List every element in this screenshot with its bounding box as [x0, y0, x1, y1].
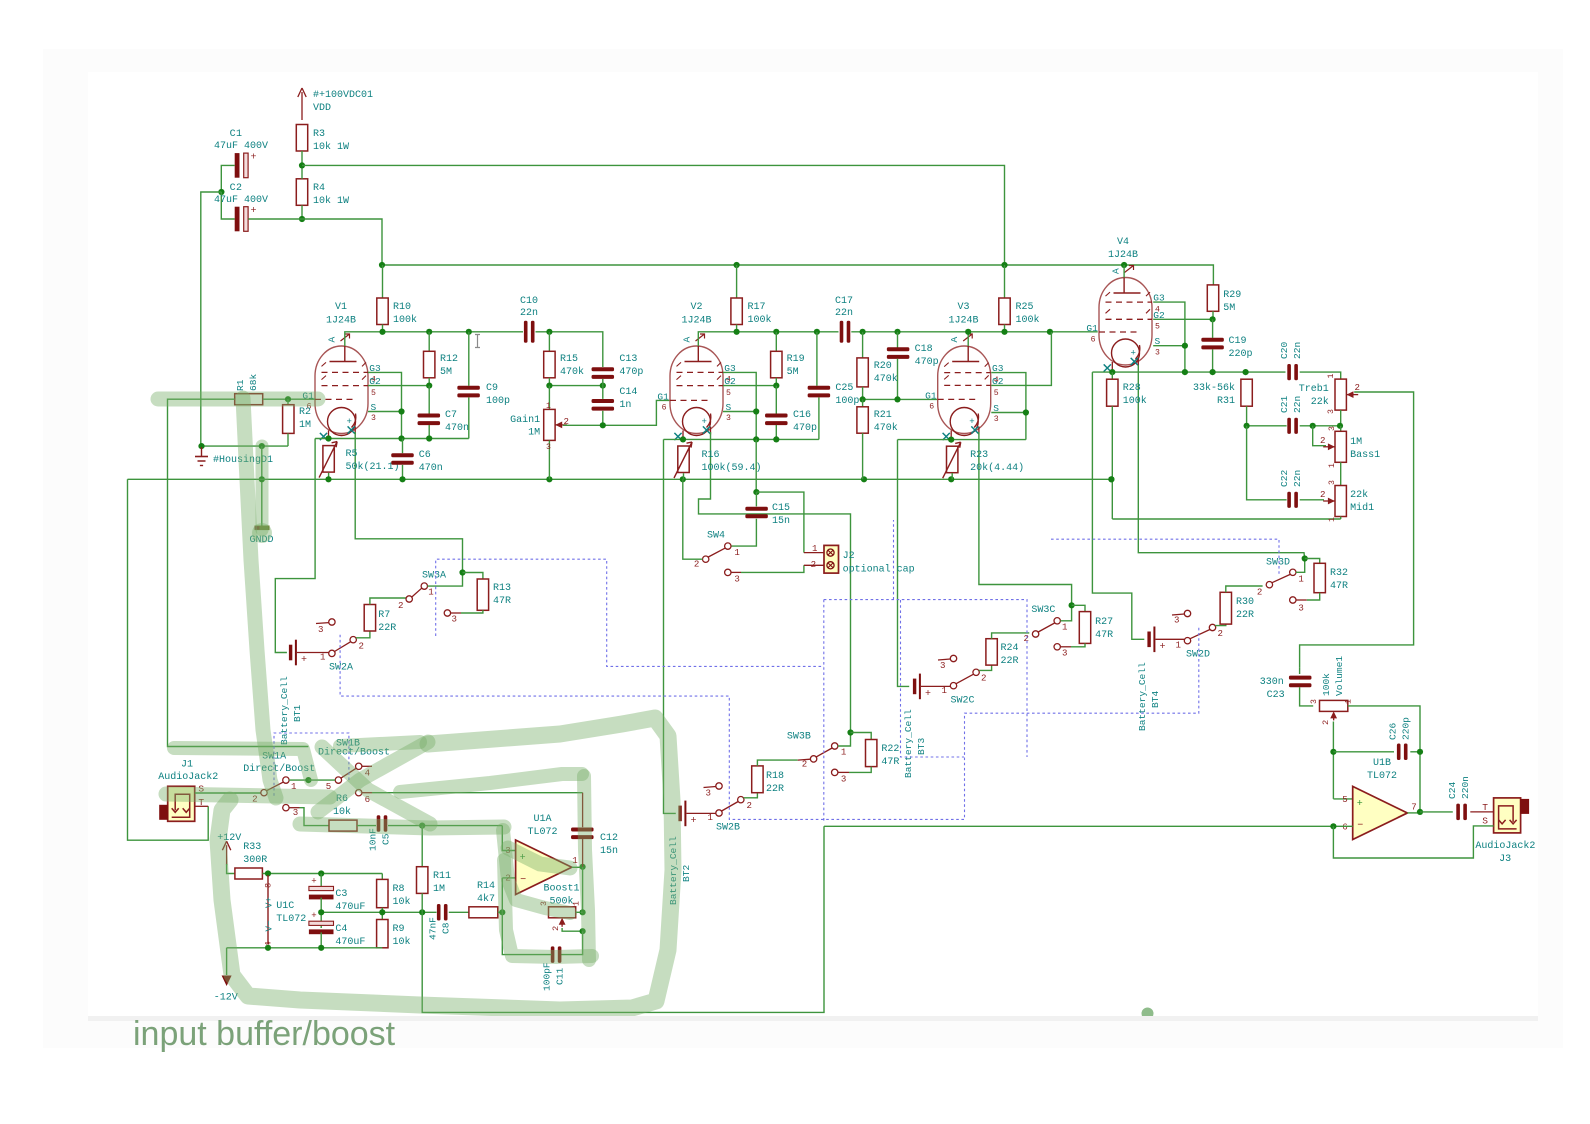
wire J1 sleeve stub [195, 805, 208, 807]
resistor R19 [775, 332, 777, 352]
svg-text:T: T [1482, 802, 1488, 813]
svg-text:8: 8 [264, 883, 274, 888]
node mid C3C4 [318, 909, 324, 915]
node R15 bottom [546, 383, 552, 389]
svg-text:G1: G1 [1086, 323, 1098, 334]
node V2 fil-R16 [680, 436, 686, 442]
wire V1 S row [368, 411, 402, 413]
capacitor C13 [592, 367, 615, 371]
svg-text:1: 1 [1298, 574, 1304, 585]
resistor R18 [752, 766, 763, 793]
resistor R1 [235, 394, 263, 405]
node V4 R31-top [1243, 369, 1249, 375]
svg-text:R27: R27 [1095, 617, 1113, 628]
svg-text:6: 6 [1091, 335, 1096, 344]
svg-text:15n: 15n [772, 516, 790, 527]
svg-text:10k: 10k [393, 936, 411, 948]
capacitor C7 [428, 386, 430, 414]
capacitor C17 [840, 321, 844, 343]
resistor R25 [1004, 265, 1006, 298]
node plate rail V4 anode [1121, 262, 1127, 268]
wire U1B minus input row [824, 825, 1353, 827]
svg-text:3: 3 [1062, 648, 1067, 659]
wire C13-C14 link [602, 379, 604, 399]
wire V2 anode row [698, 332, 838, 346]
svg-text:-12V: -12V [214, 993, 238, 1004]
node anode-R19 [773, 329, 779, 335]
svg-text:BT1: BT1 [292, 705, 303, 722]
svg-text:5: 5 [994, 389, 999, 398]
wire R14 to minus input [498, 911, 503, 913]
node anode V3 [965, 329, 971, 335]
svg-text:3: 3 [1298, 603, 1303, 614]
annotation highlighter big loop [218, 718, 673, 1010]
wire R24 to SW3C [992, 633, 1030, 639]
svg-text:C3: C3 [335, 889, 347, 900]
svg-text:G1: G1 [925, 390, 937, 401]
node bus Gain1 [546, 476, 552, 482]
svg-text:TL072: TL072 [276, 914, 306, 925]
svg-text:5M: 5M [440, 367, 452, 378]
wire V4 G2 row [1153, 318, 1213, 320]
svg-text:330n: 330n [1260, 677, 1284, 688]
wire C22 to Mid1 wiper [1300, 499, 1324, 501]
svg-text:100k: 100k [1321, 673, 1332, 696]
capacitor C14 [592, 399, 615, 403]
svg-text:VDD: VDD [313, 103, 331, 114]
svg-text:V+: V+ [264, 897, 275, 908]
node wiper-C26 [1330, 749, 1336, 755]
svg-text:C17: C17 [835, 296, 853, 307]
svg-text:10k 1W: 10k 1W [313, 195, 349, 207]
svg-text:C15: C15 [772, 503, 790, 514]
svg-text:470uF: 470uF [335, 937, 365, 948]
node R11 top [419, 823, 425, 829]
svg-text:2: 2 [398, 600, 403, 611]
svg-text:6: 6 [662, 404, 667, 413]
wire G1 row V3 [863, 398, 938, 400]
wire C10 out [536, 332, 603, 367]
svg-text:optional cap: optional cap [843, 564, 915, 576]
svg-text:100k(59.4): 100k(59.4) [702, 462, 762, 474]
wire Boost1 wiper tie [562, 928, 583, 931]
node plate rail R25 [1001, 262, 1007, 268]
trimmer R5 [323, 446, 334, 473]
wire R32 bottom to pin3 [1307, 593, 1320, 600]
capacitor C8 [437, 904, 441, 921]
capacitor C4 [309, 929, 334, 934]
svg-text:C13: C13 [619, 354, 637, 365]
svg-text:R22: R22 [881, 744, 899, 755]
node wiper-C14 [600, 422, 606, 428]
svg-text:47uF 400V: 47uF 400V [214, 141, 268, 152]
resistor R6 [329, 820, 357, 831]
svg-text:22n: 22n [1292, 470, 1303, 487]
wire V3 left filament to BT3 [898, 440, 910, 687]
node C1-C2 left junction [218, 189, 224, 195]
svg-text:2: 2 [1218, 628, 1223, 639]
node anode-R17 [734, 329, 740, 335]
resistor R12 [428, 332, 430, 352]
svg-text:100k: 100k [748, 314, 772, 326]
svg-text:2: 2 [981, 673, 986, 684]
svg-text:+: + [311, 875, 316, 886]
wire V+ rail [262, 873, 382, 875]
svg-text:R28: R28 [1123, 383, 1141, 394]
svg-text:22n: 22n [520, 308, 538, 319]
selection box network A lower [340, 625, 1199, 819]
node SW3B-R22 [847, 729, 853, 735]
svg-text:C1: C1 [230, 129, 243, 140]
svg-text:C10: C10 [520, 296, 538, 307]
resistor R30 [1220, 592, 1231, 624]
wire out to C24 [1420, 811, 1453, 813]
svg-text:C22: C22 [1279, 470, 1290, 487]
node Treb3-Bass1 [1337, 423, 1343, 429]
svg-text:1: 1 [734, 547, 740, 558]
svg-text:+: + [1131, 348, 1136, 359]
node SW1 common [305, 777, 311, 783]
wire V4 bottom row [1092, 371, 1285, 373]
svg-text:#+100VDC01: #+100VDC01 [313, 90, 373, 101]
svg-text:SW2B: SW2B [716, 823, 740, 834]
svg-text:AudioJack2: AudioJack2 [1475, 840, 1535, 852]
svg-text:R21: R21 [874, 410, 892, 421]
svg-text:1: 1 [1328, 517, 1337, 522]
wire U1B plus input [1333, 798, 1352, 800]
svg-text:22R: 22R [1236, 610, 1254, 621]
resistor R13 [463, 573, 483, 580]
svg-text:5: 5 [1342, 794, 1347, 805]
svg-text:U1A: U1A [533, 814, 551, 825]
resistor R27 [1072, 605, 1085, 611]
resistor R4 [296, 179, 307, 206]
selection box SW4 group [823, 600, 825, 822]
svg-text:G1: G1 [657, 391, 669, 402]
node anode-R25 [1001, 329, 1007, 335]
wire SW3B pin1 up [838, 733, 851, 747]
svg-text:+: + [1160, 642, 1166, 653]
node plate rail R10 [379, 262, 385, 268]
svg-text:1M: 1M [1350, 437, 1362, 448]
node V2 S-G3 [753, 408, 759, 414]
svg-text:J2: J2 [843, 551, 855, 562]
svg-text:22k: 22k [1350, 489, 1368, 501]
node V4 fil-R28 [1109, 369, 1115, 375]
wire tone bottom rail [1112, 518, 1340, 520]
resistor R32 [1305, 559, 1320, 564]
wire C8 to R14 [449, 911, 469, 913]
svg-text:U1B: U1B [1373, 758, 1391, 769]
svg-text:2: 2 [694, 559, 699, 570]
wire V2 bottom filament row [664, 438, 819, 440]
stray green dot [1142, 1008, 1154, 1020]
wire SW3C pin1 up [1060, 605, 1071, 621]
wire +100V lower rail to V1/V2 [248, 218, 302, 220]
ground GNDD [255, 526, 270, 531]
wire V2 right filament to SW3B [699, 432, 851, 733]
svg-text:3: 3 [994, 415, 999, 424]
wire R8-R9 mid rail [381, 908, 383, 920]
wire SW3A pin1 up [428, 573, 463, 587]
wire V2 G2 row [723, 385, 776, 387]
wire R1 left to SW1 common [168, 399, 309, 746]
resistor R17 [736, 265, 738, 298]
trimmer R23 [947, 446, 958, 473]
svg-text:R16: R16 [702, 450, 720, 461]
svg-text:SW3D: SW3D [1266, 558, 1290, 569]
svg-text:100pF: 100pF [542, 962, 553, 991]
wire J3 sleeve loop to pin6 [1333, 826, 1493, 858]
svg-text:R9: R9 [393, 924, 405, 935]
svg-text:C8: C8 [441, 922, 452, 934]
svg-text:C19: C19 [1229, 336, 1247, 347]
node V2 G3-bottom [753, 436, 759, 442]
node R3-C1 junction [299, 162, 305, 168]
svg-text:BT4: BT4 [1150, 691, 1161, 708]
svg-text:3: 3 [452, 614, 457, 625]
svg-text:220n: 220n [1460, 776, 1471, 799]
wire V3 anode row to V4 G1 [967, 332, 969, 346]
wire V2 G3 drop [723, 372, 756, 439]
svg-text:470k: 470k [560, 366, 584, 378]
wire SW2A to R7 [356, 631, 370, 638]
wire Boost1 pin1 stub [576, 911, 583, 913]
svg-text:R33: R33 [243, 842, 261, 853]
svg-text:TL072: TL072 [1367, 771, 1397, 782]
wire V2 S row [723, 411, 756, 413]
wire C26 row [1333, 751, 1394, 753]
svg-text:1M: 1M [299, 420, 311, 431]
svg-text:C21: C21 [1279, 396, 1290, 413]
svg-text:3: 3 [1310, 699, 1319, 704]
resistor R3 [296, 125, 307, 152]
svg-text:100k: 100k [1016, 314, 1040, 326]
svg-text:R8: R8 [393, 884, 405, 895]
wire output down to Boost1 [582, 867, 584, 913]
wire Bass1 to Mid1 [1340, 462, 1342, 485]
svg-text:5: 5 [371, 389, 376, 398]
svg-text:1: 1 [1176, 640, 1182, 651]
node SW3A-R13 [459, 569, 465, 575]
capacitor C15 [755, 492, 757, 506]
wire C14 to wiper row [602, 411, 604, 426]
node V- U1C [265, 945, 271, 951]
wire V4 G3 drop [1153, 302, 1185, 372]
svg-text:2: 2 [1320, 435, 1325, 446]
svg-text:C20: C20 [1279, 342, 1290, 359]
power -12V [226, 948, 228, 975]
node G2 drop [1047, 329, 1053, 335]
svg-text:R14: R14 [477, 881, 495, 892]
wire SW2D to R30 [1215, 624, 1226, 626]
node C26-out [1417, 749, 1423, 755]
svg-text:C11: C11 [555, 968, 566, 985]
svg-text:1: 1 [1327, 374, 1336, 379]
svg-text:+: + [1357, 799, 1363, 810]
tube V4 [1099, 278, 1152, 366]
svg-text:2: 2 [1320, 489, 1325, 500]
svg-text:R18: R18 [766, 771, 784, 782]
resistor R29 [1207, 285, 1218, 311]
svg-text:SW3A: SW3A [422, 571, 446, 582]
wire BT4 to SW2D [1156, 638, 1185, 640]
svg-text:R4: R4 [313, 183, 325, 194]
wire C22 branch [1247, 426, 1287, 500]
node R14-pin2 [499, 909, 505, 915]
svg-text:1: 1 [812, 543, 818, 554]
battery BT4 Battery_Cell [1147, 632, 1150, 648]
node U1B out [1417, 809, 1423, 815]
svg-text:47uF 400V: 47uF 400V [214, 195, 268, 206]
svg-text:470uF: 470uF [335, 902, 365, 913]
capacitor C24 [1456, 804, 1460, 821]
wire Gain1 wiper to V2 G1 [563, 400, 670, 425]
svg-text:Battery_Cell: Battery_Cell [1137, 662, 1148, 731]
wire +100V upper rail to V3/V4 [302, 165, 1005, 265]
node V3 fil-R23 [948, 437, 954, 443]
resistor R2 [287, 399, 289, 405]
potentiometer Mid1 [1335, 486, 1346, 517]
node G2-R19-C16 [773, 383, 779, 389]
svg-text:SW3B: SW3B [787, 732, 811, 743]
resistor R9 [377, 920, 388, 948]
selection box network D [1051, 539, 1279, 575]
svg-text:SW2A: SW2A [329, 663, 353, 674]
svg-text:4k7: 4k7 [477, 893, 495, 905]
wire BT3 to SW2C [921, 685, 950, 687]
wire R30 to SW3D [1226, 586, 1263, 592]
node bus C6 [399, 476, 405, 482]
svg-text:C5: C5 [381, 833, 392, 845]
svg-text:R11: R11 [433, 871, 451, 882]
annotation highlighter input loop [158, 392, 318, 407]
node R2-ground [259, 443, 265, 449]
wire V4 anode [1123, 265, 1125, 278]
capacitor C22 [1287, 492, 1291, 508]
wire G1 row V1 [263, 398, 315, 400]
resistor R20 [862, 332, 864, 358]
wire C15 tee branch [756, 492, 804, 552]
svg-text:C16: C16 [793, 410, 811, 421]
wire R27 bottom to pin3 [1071, 643, 1085, 646]
node S-G3 [398, 408, 404, 414]
battery BT2 Battery_Cell [678, 806, 681, 822]
svg-text:+: + [347, 416, 352, 427]
resistor R7 [364, 605, 375, 632]
node R31-C21 [1244, 423, 1250, 429]
wire Bass1 wiper tie [1313, 426, 1326, 446]
svg-text:2: 2 [359, 641, 364, 652]
svg-text:C26: C26 [1388, 723, 1399, 740]
svg-text:R19: R19 [787, 354, 805, 365]
svg-text:C4: C4 [335, 924, 347, 935]
svg-text:2: 2 [747, 800, 752, 811]
node mid R8R9 [379, 909, 385, 915]
capacitor C18 [897, 332, 899, 348]
svg-text:BT3: BT3 [916, 738, 927, 755]
node R28 bus [1108, 476, 1114, 482]
svg-text:Battery_Cell: Battery_Cell [279, 676, 290, 745]
node C21-Bass wiper [1310, 423, 1316, 429]
wire SW3D pin1 up [1296, 559, 1305, 573]
svg-text:C9: C9 [486, 383, 498, 394]
wire V2 left filament to BT2 [664, 439, 676, 813]
node anode-C25 [814, 329, 820, 335]
svg-text:3: 3 [546, 443, 551, 452]
node C18 top [894, 329, 900, 335]
svg-text:68k: 68k [248, 374, 259, 391]
svg-text:20k(4.44): 20k(4.44) [970, 462, 1024, 474]
switch SW2A [329, 650, 335, 656]
node bus R23 [948, 476, 954, 482]
node anode-C9 [466, 329, 472, 335]
wire V1 G2 row [368, 385, 429, 387]
svg-text:22n: 22n [835, 308, 853, 319]
wire SW1A pin3 to R6 [300, 808, 330, 826]
svg-text:A: A [327, 337, 338, 343]
resistor R8 [381, 874, 383, 880]
wire V3 right filament to SW3C [979, 432, 1072, 605]
wire to ground rail left [201, 192, 222, 446]
wire R13 bottom to pin3 [461, 610, 483, 613]
svg-text:47R: 47R [881, 757, 899, 768]
svg-text:V4: V4 [1117, 237, 1129, 248]
svg-text:BT2: BT2 [681, 865, 692, 882]
svg-text:1: 1 [1328, 463, 1337, 468]
capacitor C6 [402, 439, 404, 454]
svg-text:V−: V− [264, 921, 275, 932]
node G3-bottom [398, 435, 404, 441]
svg-text:S: S [1482, 816, 1488, 827]
wire down to C11 row [561, 931, 583, 954]
wire U1A output [572, 866, 583, 868]
node housing [198, 443, 204, 449]
wire U1B output [1407, 812, 1420, 814]
wire J1 tip to SW1A [195, 792, 261, 794]
svg-text:Volume1: Volume1 [1334, 656, 1345, 696]
svg-text:J1: J1 [181, 760, 193, 771]
wire R11 bottom to U1B feedback loop [422, 826, 824, 1012]
svg-text:+: + [301, 655, 307, 666]
ground #HousingD1 [201, 447, 203, 456]
svg-text:−: − [1357, 821, 1363, 832]
svg-text:R31: R31 [1217, 396, 1235, 407]
wire BT2 to SW2B [687, 812, 716, 814]
svg-text:47R: 47R [493, 596, 511, 607]
svg-text:R12: R12 [440, 354, 458, 365]
wire V1 right filament to SW3A [355, 432, 462, 573]
svg-text:R3: R3 [313, 129, 325, 140]
svg-text:R2: R2 [299, 407, 311, 418]
wire R6 to C5 [357, 825, 376, 827]
wire V3 G3 drop [991, 373, 1026, 440]
svg-text:470k: 470k [874, 373, 898, 385]
svg-text:SW3C: SW3C [1031, 605, 1055, 616]
capacitor C25 [816, 332, 818, 386]
svg-text:A: A [1111, 268, 1122, 274]
resistor R21 [862, 399, 864, 406]
resistor R24 [986, 639, 997, 665]
svg-text:C23: C23 [1267, 690, 1285, 701]
potentiometer Bass1 [1340, 426, 1342, 432]
wire housing ground row [201, 445, 288, 447]
wire C3-C4 mid [320, 898, 322, 928]
node V- C4 [318, 945, 324, 951]
node pin6 [1330, 823, 1336, 829]
wire V3 G2 tie to anode [991, 332, 1051, 386]
svg-text:R17: R17 [748, 302, 766, 313]
